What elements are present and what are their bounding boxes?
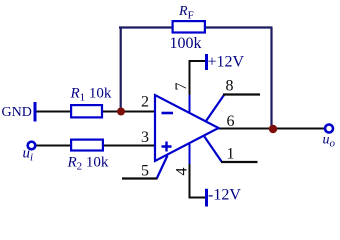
wire GND to R1	[36, 111, 70, 113]
wire pin 7 vertical	[189, 60, 191, 95]
svg-text:7: 7	[173, 83, 190, 91]
svg-text:4: 4	[173, 168, 190, 176]
svg-text:8: 8	[226, 78, 234, 95]
svg-text:5: 5	[141, 163, 149, 180]
pin 1 stub	[221, 161, 258, 163]
GND terminal	[34, 102, 37, 122]
wire +12V horizontal	[190, 60, 206, 62]
pin 8 lead blue	[206, 95, 224, 121]
svg-text:2: 2	[141, 94, 149, 111]
wire -12V horizontal	[189, 197, 206, 199]
resistor RF	[173, 21, 205, 32]
pin 5 stub	[122, 177, 157, 179]
svg-text:GND: GND	[2, 105, 32, 120]
op-amp U1 triangle	[155, 95, 219, 161]
wire ui to R2	[37, 145, 71, 147]
wire output pin 6 to uo	[219, 128, 325, 130]
+12V terminal	[205, 54, 208, 70]
junction node at output	[269, 125, 277, 133]
wire feedback right vertical	[270, 28, 272, 129]
svg-text:1: 1	[227, 146, 235, 163]
wire R1 to op-amp pin 2	[103, 111, 155, 113]
svg-text:6: 6	[227, 113, 235, 130]
junction node at pin 2	[117, 108, 125, 116]
wire pin 4 vertical	[189, 164, 191, 198]
pin 8 stub	[223, 93, 260, 95]
-12V terminal	[205, 189, 208, 207]
svg-text:100k: 100k	[170, 35, 202, 52]
svg-text:RF: RF	[178, 4, 194, 22]
terminal ui	[28, 142, 36, 150]
pin 1 lead blue	[204, 136, 222, 162]
resistor R1	[71, 105, 102, 117]
svg-text:-12V: -12V	[208, 187, 241, 204]
svg-text:+12V: +12V	[208, 54, 245, 71]
svg-text:uo: uo	[323, 133, 336, 150]
op-amp plus sign	[162, 142, 172, 152]
pin 5 lead blue	[157, 156, 168, 180]
wire feedback left vertical	[120, 28, 122, 112]
svg-text:R1 10k: R1 10k	[70, 86, 112, 104]
pin 7 lead blue	[189, 95, 191, 113]
resistor R2	[71, 140, 103, 151]
svg-text:R2 10k: R2 10k	[67, 155, 109, 173]
svg-text:3: 3	[141, 129, 149, 146]
wire R2 to op-amp pin 3	[104, 145, 155, 147]
pin 4 lead blue	[189, 144, 191, 164]
op-amp minus sign	[162, 112, 174, 115]
terminal uo	[325, 125, 333, 133]
wire feedback top	[119, 26, 273, 28]
